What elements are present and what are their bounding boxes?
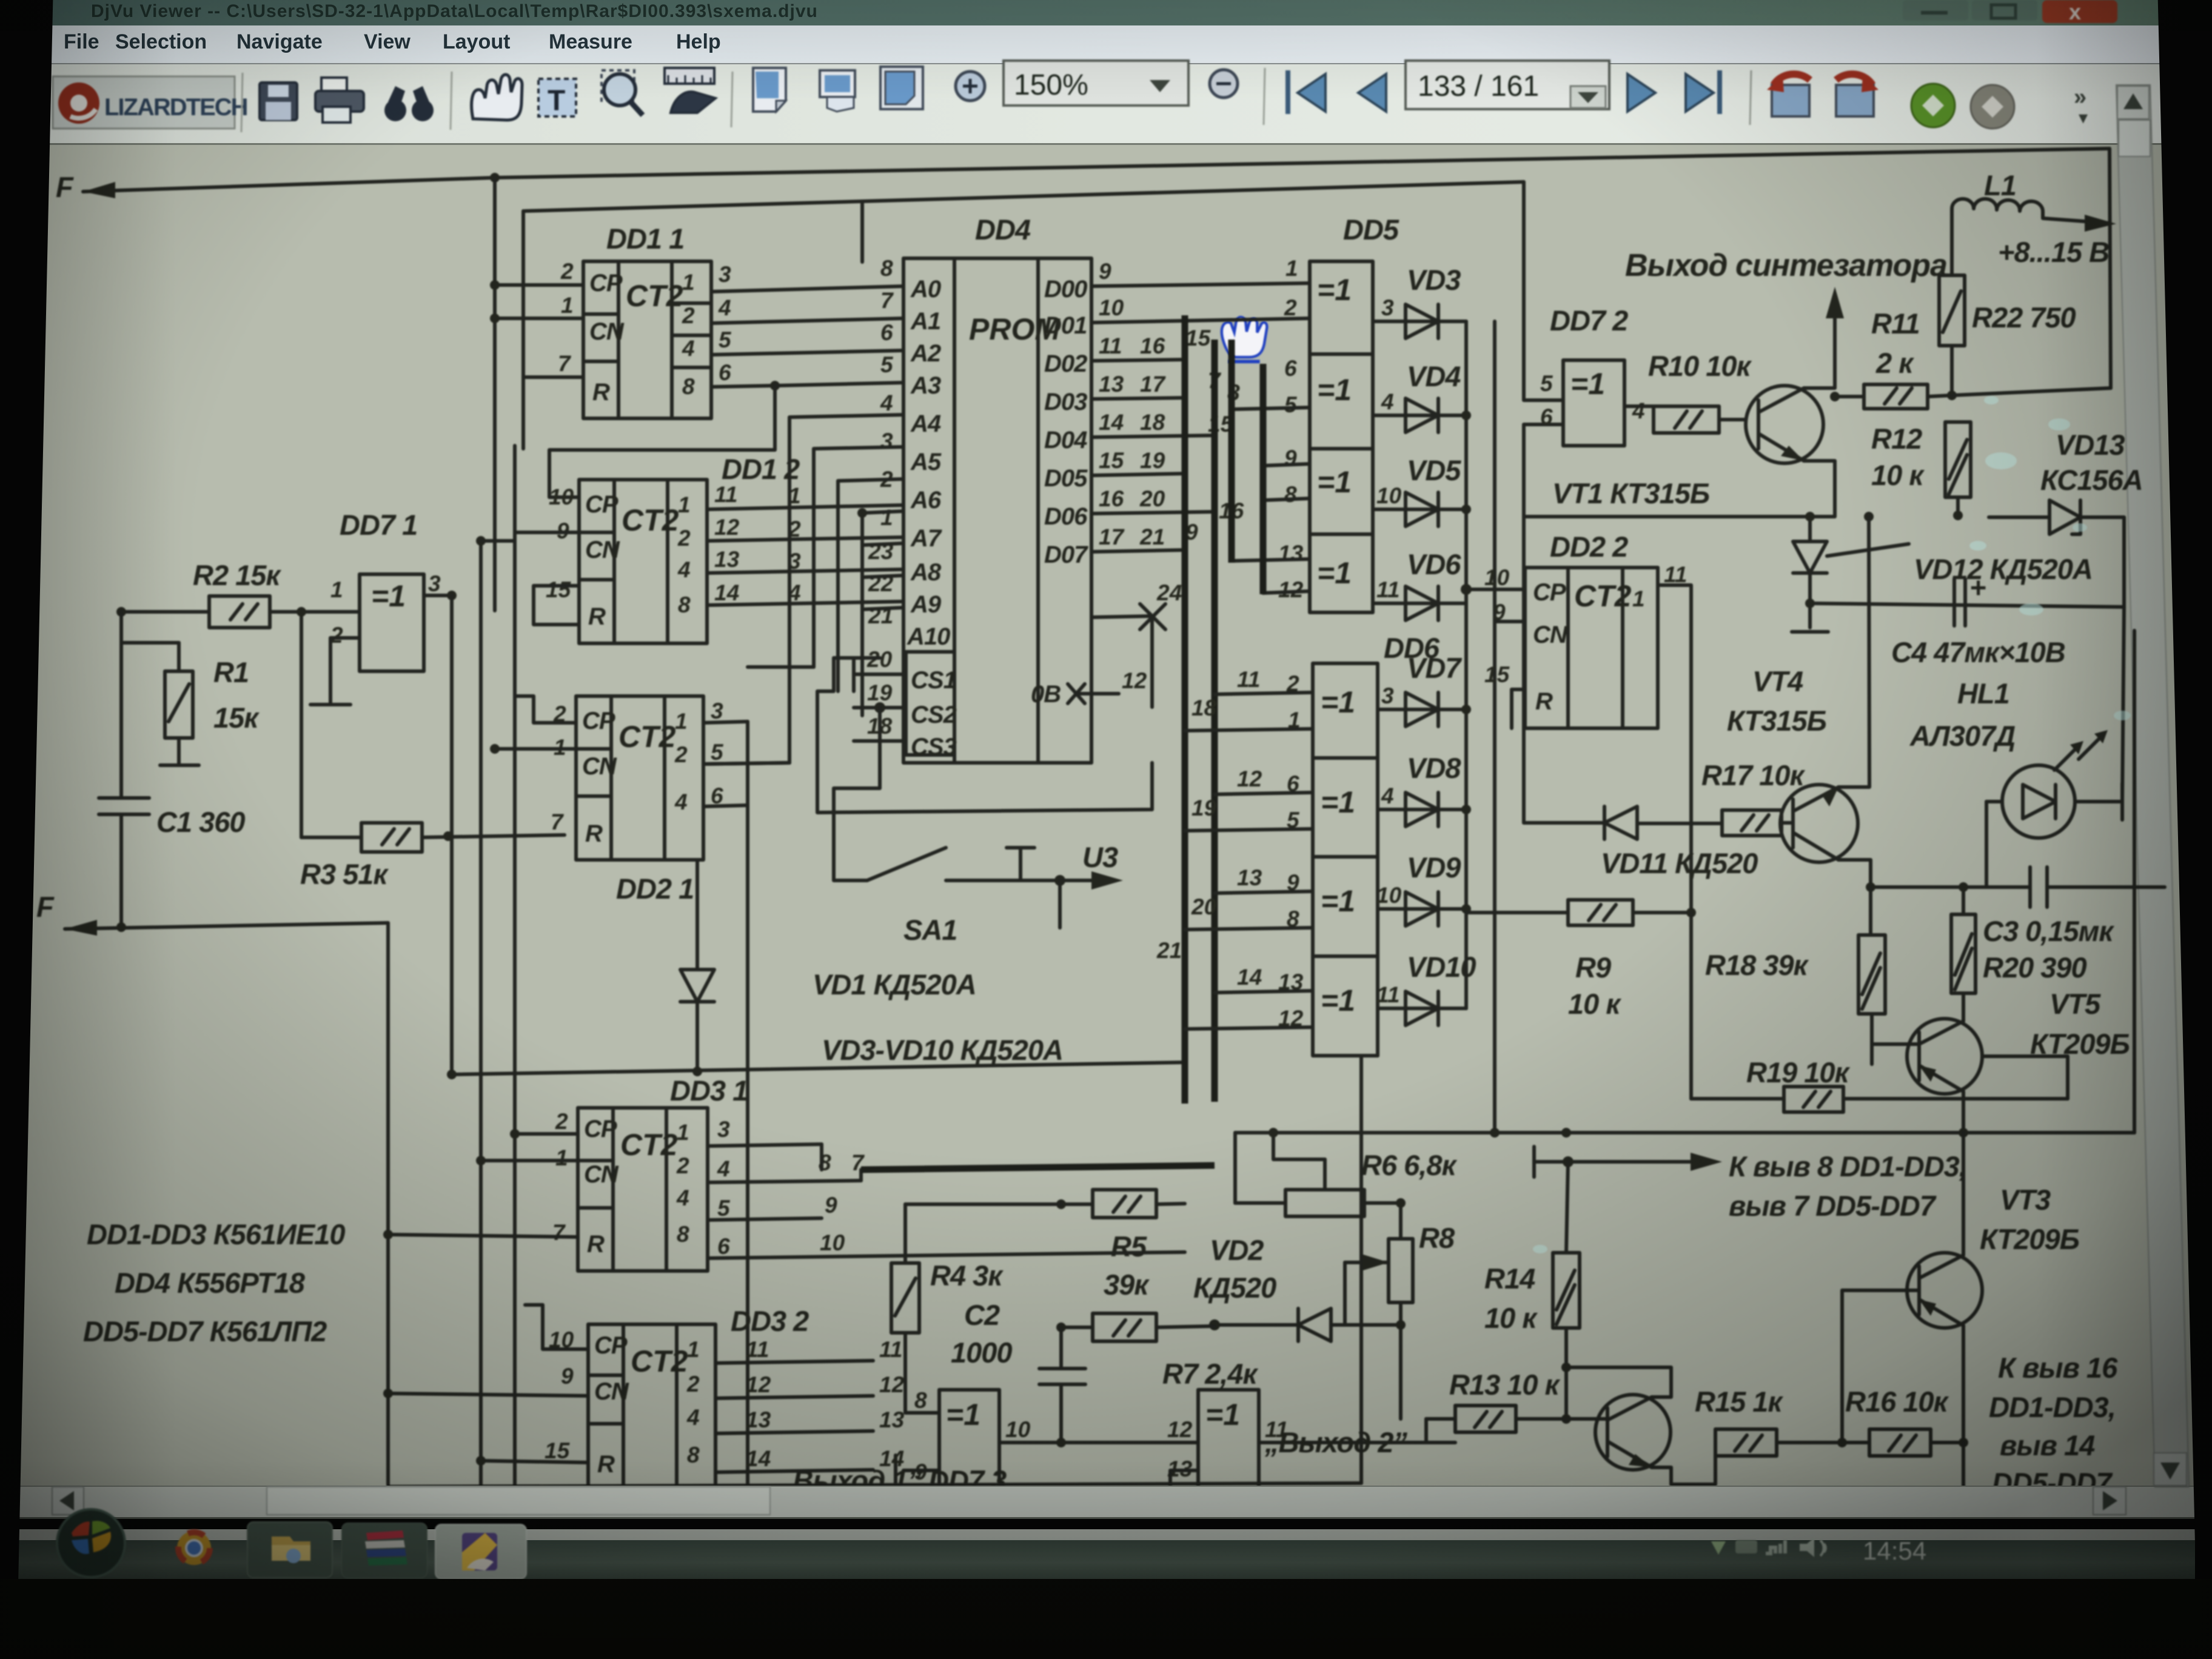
resistor R18: [1705, 935, 1885, 1064]
resistor R3: [297, 607, 565, 890]
text select icon: [538, 79, 576, 117]
wire DD3.2 outputs: [716, 1337, 905, 1472]
diode VD5: [1373, 454, 1466, 526]
resistor R11: [1830, 307, 1951, 409]
counter DD2.1: [490, 696, 789, 905]
diode VD12: [1792, 517, 2093, 632]
rotate right button: [1836, 74, 1879, 116]
wire DD3.1 outputs: [708, 1144, 1215, 1258]
DD4 data pins D00-D07: [1044, 259, 1125, 568]
diode VD9: [1376, 851, 1466, 926]
last page button: [1686, 70, 1722, 114]
wire R4 to DD7.3: [905, 1389, 939, 1413]
DD5 input stubs: [1232, 340, 1310, 594]
diode VD6: [1373, 548, 1466, 620]
wire DD1.1 outputs: [549, 286, 903, 497]
hscroll left arrow: [52, 1487, 84, 1515]
wire to R14: [1566, 1162, 1568, 1253]
tray icons: [1711, 1538, 1826, 1557]
measure tool icon: [665, 68, 716, 113]
XOR stack DD5: [1278, 213, 1399, 612]
zoom out button: [1210, 70, 1238, 98]
hand tool icon: [472, 75, 522, 120]
wire D02-D07 to bus: [1091, 326, 1244, 552]
label IC list: [83, 1218, 345, 1347]
diode VD3: [1373, 264, 1466, 338]
wire bottom bus horizontals: [447, 1062, 1185, 1079]
transistor VT2: [1426, 1362, 1715, 1528]
zoom in button: [956, 72, 985, 101]
DD6 input stubs: [1185, 692, 1313, 1029]
wire parallel vertical 1: [479, 541, 483, 1484]
grey nav button: [1971, 85, 2014, 129]
capacitor C1: [99, 798, 245, 927]
DD4 0B pin 12: [1031, 668, 1152, 708]
prev page button: [1358, 74, 1386, 112]
resistor R4: [891, 1204, 1061, 1389]
sparkle reflections: [1533, 396, 2131, 1253]
inductor L1: [1952, 169, 2116, 275]
wire top corner to rail: [1952, 388, 2111, 395]
wire bottom rail: [388, 1483, 1361, 1487]
node F bottom line: [36, 891, 388, 936]
LIZARDTECH logo: [53, 76, 247, 129]
hscroll right arrow: [2093, 1487, 2126, 1515]
wire parallel vertical 2: [513, 446, 517, 1484]
hand cursor: [1222, 317, 1267, 361]
taskbar folder button: [247, 1522, 332, 1578]
op-amp gate DD7.4: [1167, 1390, 1455, 1525]
diode VD1: [680, 860, 976, 1074]
capacitor C3: [2030, 867, 2165, 907]
node R3-right: [443, 831, 453, 841]
switch SA1: [834, 741, 1123, 946]
resistor R22: [1939, 275, 2076, 400]
transistor VT1: [1524, 287, 1844, 517]
transistor VT4: [1727, 517, 1871, 887]
DD4 address pins A0-A10: [868, 256, 950, 650]
transistor VT5: [1872, 631, 2134, 1133]
page single icon: [753, 68, 786, 112]
node junction top: [490, 173, 500, 183]
wire loop left vertical: [860, 201, 864, 262]
DD4 pin 24: [1091, 580, 1182, 707]
counter DD3.1: [383, 1108, 731, 1271]
op-amp gate DD7.2: [1540, 304, 1654, 446]
resistor R14: [1484, 1253, 1580, 1424]
resistor R10: [1648, 350, 1752, 433]
page framed icon: [880, 67, 923, 109]
wire DD2.1 out vertical: [746, 722, 749, 1484]
taskbar start orb: [57, 1509, 125, 1577]
wire feed to DD7.2 from top: [1524, 182, 1563, 400]
vscroll track: [2116, 85, 2189, 1487]
window min max buttons: [1903, 0, 1968, 21]
node F top line: [56, 149, 2110, 203]
transistor VT3: [1842, 1133, 2079, 1443]
zoom combo 150%: [1004, 61, 1188, 106]
resistor R13: [1426, 1369, 1595, 1443]
capacitor C2: [951, 1299, 1085, 1443]
label K vyv16: [1989, 1352, 2118, 1499]
wire CN vertical: [493, 318, 497, 611]
node K vyv8 terminal: [1534, 1147, 1966, 1222]
diode VD7: [1378, 652, 1466, 726]
taskbar book button: [342, 1523, 427, 1578]
XOR stack DD6: [1156, 632, 1440, 1056]
op-amp gate DD7.3: [896, 1388, 1198, 1495]
node DD7.1 out: [447, 591, 457, 600]
resistor R1: [121, 643, 260, 765]
wire right corner drop: [2110, 149, 2111, 388]
resistor R2: [121, 559, 338, 628]
wire DD11 left feed: [490, 280, 583, 318]
LED HL1: [1986, 730, 2122, 887]
wire vertical from top junction: [493, 178, 497, 315]
diode VD4: [1373, 360, 1466, 432]
wire top inner loop: [525, 182, 1524, 211]
diode VD2: [1193, 1234, 1406, 1341]
wire bottom F drop: [386, 923, 390, 1484]
counter DD2.2: [1461, 531, 1691, 913]
resistor R17: [1637, 759, 1806, 836]
first page button: [1285, 70, 1326, 114]
resistor R19: [1691, 913, 2068, 1112]
page combo 133/161: [1406, 61, 1609, 109]
resistor R5: [1056, 1190, 1185, 1301]
resistor R7: [1056, 1313, 1258, 1390]
wire thick bus verticals: [1185, 315, 1215, 1104]
wire rail to DD2.2 and R9: [1466, 321, 1495, 1133]
DD4 CS pins: [854, 647, 957, 760]
potentiometer R8: [1345, 1198, 1455, 1419]
wire from node A down to C1: [119, 612, 123, 798]
zoom select icon: [602, 70, 643, 115]
wire rail y1040: [1805, 511, 2124, 802]
wire VT4 emitter rail: [1866, 882, 2030, 935]
green nav button: [1911, 84, 1955, 127]
taskbar chrome icon: [177, 1531, 211, 1565]
resistor R16: [1845, 1386, 1968, 1492]
hscroll thumb: [267, 1487, 770, 1515]
PROM DD4: [903, 213, 1091, 763]
wire diode collect rail: [1461, 321, 1471, 1008]
wire horiz link at 892: [481, 539, 515, 543]
resistor R9: [1466, 900, 1696, 1020]
floppy icon: [260, 82, 297, 120]
op-amp gate DD7.1: [310, 509, 452, 705]
printer icon: [315, 78, 364, 122]
pages facing icon: [820, 70, 855, 112]
wire DD1.2 outputs: [707, 483, 903, 605]
wire out vertical: [450, 595, 454, 1074]
rotate left button: [1767, 74, 1810, 116]
binoculars icon: [384, 86, 434, 121]
resistor R12: [1871, 422, 1971, 515]
ground R1: [160, 763, 199, 767]
zener VD13: [1989, 429, 2143, 607]
resistor R20: [1951, 882, 2114, 993]
taskbar active app button: [435, 1524, 526, 1579]
wire R pin DD11: [523, 375, 583, 379]
counter DD1.1: [558, 223, 732, 418]
wire SA1 loop from DD4: [817, 658, 1152, 813]
diode VD11: [1524, 806, 1758, 879]
diode VD10: [1376, 951, 1476, 1025]
resistor R15: [1695, 1386, 1869, 1456]
capacitor C4: [1891, 571, 2065, 668]
next page button: [1627, 74, 1655, 112]
potentiometer R6: [1235, 1128, 1457, 1216]
window close button: [2042, 0, 2117, 24]
wire D00/D01 to DD5: [1091, 283, 1310, 323]
node A: [116, 607, 126, 617]
counter DD3.2: [383, 1305, 809, 1494]
wire A4-A10 feeds from DD1.2/DD2.1: [703, 415, 903, 764]
diode VD8: [1378, 752, 1466, 826]
counter DD1.2: [515, 453, 800, 643]
wire rail 1868: [1235, 1128, 1968, 1138]
